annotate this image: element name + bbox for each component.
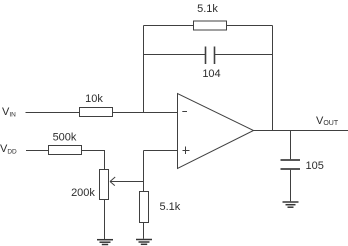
wire op-amp output to VOUT — [253, 130, 348, 132]
svg-text:104: 104 — [202, 68, 220, 80]
svg-text:10k: 10k — [85, 93, 103, 105]
capacitor 105 — [281, 160, 324, 172]
potentiometer 200k — [71, 170, 108, 200]
svg-text:VOUT: VOUT — [316, 115, 339, 127]
svg-text:5.1k: 5.1k — [160, 201, 181, 213]
wire output to capacitor 105 — [290, 131, 292, 160]
wire feedback left vertical — [143, 26, 145, 113]
wire non-inverting vertical to divider — [143, 151, 145, 192]
resistor 5.1k feedback — [194, 3, 227, 30]
wire capacitor 104 left lead — [144, 54, 206, 56]
wire top feedback right segment — [227, 25, 273, 27]
svg-text:VIN: VIN — [2, 106, 16, 119]
resistor 10k — [80, 93, 113, 117]
ground below potentiometer — [97, 240, 113, 245]
wire R 10k to op-amp inverting input — [113, 112, 178, 114]
op-amp U1 — [178, 94, 254, 169]
wire feedback right vertical — [272, 26, 274, 131]
ground below R 5.1k divider — [136, 240, 152, 245]
ground below capacitor 105 — [283, 202, 299, 207]
wire R 5.1k divider to ground — [143, 223, 145, 239]
svg-text:105: 105 — [306, 160, 324, 172]
svg-text:200k: 200k — [71, 187, 95, 199]
capacitor 104 — [202, 47, 220, 81]
wire potentiometer to ground — [104, 200, 106, 240]
svg-text:500k: 500k — [53, 132, 77, 144]
resistor 500k — [49, 132, 82, 155]
wire R 500k to potentiometer — [82, 151, 105, 170]
svg-text:VDD: VDD — [0, 143, 17, 156]
wire non-inverting input — [144, 150, 178, 152]
resistor 5.1k divider — [140, 192, 181, 223]
wire VDD to R 500k — [26, 150, 49, 152]
potentiometer wiper arrow — [110, 177, 144, 186]
wire top feedback left segment — [144, 25, 194, 27]
wire capacitor 105 to ground — [290, 170, 292, 201]
wire VIN to R 10k — [26, 112, 80, 114]
svg-text:5.1k: 5.1k — [197, 3, 218, 15]
wire capacitor 104 right lead — [215, 54, 273, 56]
